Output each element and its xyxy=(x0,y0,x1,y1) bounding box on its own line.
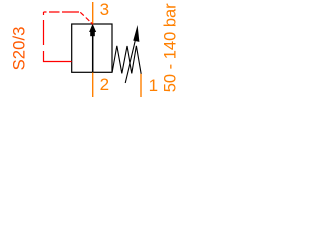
svg-text:S20/3: S20/3 xyxy=(9,27,28,71)
valve body box xyxy=(72,24,112,72)
pilot line top horizontal dashes xyxy=(44,11,80,13)
svg-text:1: 1 xyxy=(149,76,158,95)
flow arrow head base block xyxy=(90,32,95,36)
pilot line diagonal dashed xyxy=(80,12,93,24)
flow arrow stem xyxy=(92,35,94,72)
svg-text:3: 3 xyxy=(100,0,109,19)
svg-text:2: 2 xyxy=(100,75,109,94)
adjustment arrow shaft xyxy=(125,41,135,83)
adjustment arrow head xyxy=(133,25,139,42)
port 3 line xyxy=(92,2,94,24)
port 2 line xyxy=(92,73,94,98)
spring xyxy=(112,46,141,74)
pilot line bottom L to box xyxy=(44,51,72,62)
svg-text:50 - 140 bar: 50 - 140 bar xyxy=(161,3,179,92)
flow arrow head xyxy=(89,24,96,32)
pilot line vertical dashes xyxy=(43,12,45,45)
port 1 line xyxy=(140,74,142,97)
